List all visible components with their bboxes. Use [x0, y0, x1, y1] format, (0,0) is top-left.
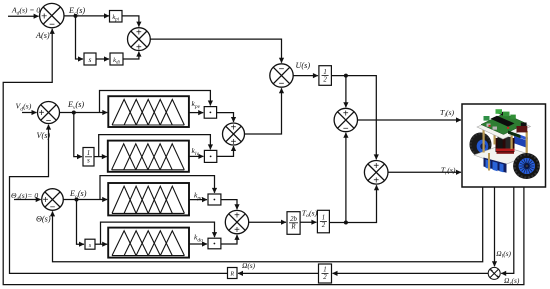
svg-text:2b: 2b [290, 216, 297, 223]
svg-text:+: + [231, 123, 237, 134]
svg-text:−: − [49, 19, 55, 30]
svg-text:2: 2 [322, 222, 326, 229]
svg-text:+: + [41, 11, 47, 23]
svg-text:+: + [496, 274, 499, 280]
svg-text:+: + [343, 109, 349, 120]
svg-text:−: − [343, 123, 349, 134]
svg-text:−: − [279, 64, 285, 75]
svg-text:2: 2 [323, 76, 327, 83]
svg-text:Θ(s): Θ(s) [36, 215, 51, 224]
svg-text:Ω(s): Ω(s) [242, 261, 256, 270]
svg-text:2: 2 [323, 274, 327, 281]
svg-text:1: 1 [323, 267, 326, 274]
svg-text:R: R [290, 224, 296, 231]
svg-text:+: + [373, 176, 379, 187]
svg-text:+: + [373, 161, 379, 172]
svg-text:+: + [136, 28, 142, 39]
svg-text:V(s): V(s) [37, 131, 51, 140]
svg-text:−: − [46, 115, 52, 126]
svg-text:A(s): A(s) [35, 31, 50, 40]
svg-text:+: + [43, 195, 49, 206]
svg-text:+: + [234, 211, 240, 222]
svg-text:+: + [136, 42, 142, 53]
svg-text:+: + [39, 108, 45, 119]
svg-text:U(s): U(s) [296, 61, 311, 70]
svg-text:s: s [89, 55, 92, 64]
svg-text:1: 1 [323, 69, 326, 76]
svg-text:1: 1 [322, 215, 325, 222]
svg-text:+: + [234, 225, 240, 236]
svg-text:1: 1 [87, 150, 90, 157]
svg-text:R: R [229, 272, 234, 278]
svg-text:−: − [279, 79, 285, 90]
svg-text:+: + [490, 268, 493, 274]
svg-text:−: − [50, 202, 56, 213]
svg-text:+: + [231, 137, 237, 148]
svg-text:s: s [87, 158, 90, 165]
